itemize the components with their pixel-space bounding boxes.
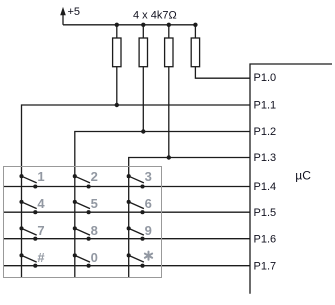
- wire R3 to P1.3 node: [168, 67, 170, 158]
- svg-text:7: 7: [37, 223, 44, 238]
- svg-text:P1.0: P1.0: [254, 72, 277, 84]
- svg-text:P1.7: P1.7: [254, 260, 277, 272]
- wire P1.3 to keypad column 3: [129, 158, 250, 278]
- switch S1 key 1: [19, 174, 37, 188]
- wire keypad row 3 to P1.6: [4, 238, 250, 240]
- switch S10 key #: [19, 253, 37, 267]
- resistor R2: [139, 25, 147, 67]
- svg-text:3: 3: [145, 169, 152, 184]
- resistor R1: [113, 25, 121, 67]
- svg-text:4: 4: [37, 196, 45, 211]
- switch S4 key 4: [19, 200, 37, 214]
- wire P1.1 to keypad column 1: [22, 105, 251, 278]
- microcontroller U1 box outline: [250, 64, 332, 294]
- wire top supply bus: [63, 24, 195, 26]
- svg-text:P1.4: P1.4: [254, 181, 277, 193]
- svg-text:6: 6: [145, 196, 152, 211]
- svg-text:P1.1: P1.1: [254, 100, 277, 112]
- svg-text:5: 5: [91, 196, 98, 211]
- svg-text:µC: µC: [295, 169, 311, 183]
- label key *: [145, 252, 152, 260]
- switch S3 key 3: [127, 174, 145, 188]
- svg-text:P1.6: P1.6: [254, 233, 277, 245]
- svg-text:P1.2: P1.2: [254, 126, 277, 138]
- wire P1.2 to keypad column 2: [75, 132, 250, 278]
- svg-text:P1.3: P1.3: [254, 152, 277, 164]
- svg-text:+5: +5: [68, 6, 81, 18]
- svg-text:4 x 4k7Ω: 4 x 4k7Ω: [133, 10, 177, 22]
- wire keypad row 4 to P1.7: [4, 265, 250, 267]
- svg-text:2: 2: [91, 169, 98, 184]
- switch S8 key 8: [73, 226, 91, 240]
- power +5 supply arrow: [60, 7, 66, 25]
- node junction dots on supply bus: [115, 23, 198, 27]
- node junction R3/P1.3: [167, 155, 171, 159]
- resistor R4: [191, 25, 199, 67]
- resistor R3: [165, 25, 173, 67]
- wire R2 to P1.2 node: [142, 67, 144, 132]
- wire R4 to P1.0: [195, 67, 250, 79]
- node junction R2/P1.2: [141, 129, 145, 133]
- switch S7 key 7: [19, 226, 37, 240]
- wire keypad row 2 to P1.5: [4, 211, 250, 213]
- switch S11 key 0: [73, 253, 91, 267]
- wire keypad row 1 to P1.4: [4, 186, 250, 188]
- keypad outline box: [4, 167, 162, 278]
- svg-text:0: 0: [91, 250, 98, 265]
- switch S6 key 6: [127, 200, 145, 214]
- svg-text:1: 1: [37, 169, 44, 184]
- node junction R1/P1.1: [115, 103, 119, 107]
- svg-text:8: 8: [91, 223, 98, 238]
- svg-text:9: 9: [145, 223, 152, 238]
- switch S5 key 5: [73, 200, 91, 214]
- switch S12 key *: [127, 253, 145, 267]
- svg-text:#: #: [37, 250, 45, 265]
- wire R1 to P1.1 node: [116, 67, 118, 105]
- svg-text:P1.5: P1.5: [254, 207, 277, 219]
- switch S9 key 9: [127, 226, 145, 240]
- switch S2 key 2: [73, 174, 91, 188]
